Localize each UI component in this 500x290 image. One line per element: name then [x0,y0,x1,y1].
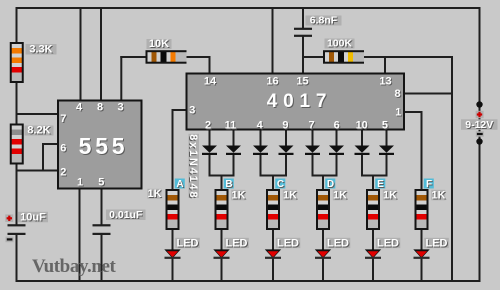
wire 0.01uF to ground rail [101,234,103,282]
wire 4017 pin 3 to column A [172,109,189,111]
svg-text:8x1N4148: 8x1N4148 [187,134,199,199]
label 10uF [18,212,48,223]
svg-text:4: 4 [76,102,83,114]
svg-text:6: 6 [334,119,340,131]
diode D1 1N4148 (4017 pin 2) [202,146,217,156]
label 10uF plus [5,214,13,222]
svg-text:1K: 1K [383,190,397,202]
wire column B resistor to LED [221,229,223,251]
label 3.3K [26,44,57,55]
label 1K column E [383,190,397,201]
wire 555 pin 3 to 10K [120,56,122,102]
junction dot supply + [476,101,482,107]
svg-text:4: 4 [257,119,264,131]
svg-text:1K: 1K [147,188,161,200]
svg-text:16: 16 [266,75,278,87]
svg-text:1K: 1K [333,190,347,202]
svg-text:LED: LED [327,237,349,249]
svg-text:10uF: 10uF [20,211,46,223]
resistor R8 1K column D [316,189,330,230]
IC U2 4017 body [187,74,405,130]
label 1K column D [333,190,347,201]
diode D6 1N4148 (4017 pin 6) [329,146,344,156]
capacitor C3 6.8nF plates [294,28,312,30]
svg-text:LED: LED [177,237,199,249]
wire 555 pin 8 to top rail [100,7,102,102]
svg-text:3.3K: 3.3K [29,44,52,56]
label 1K column A [148,189,162,199]
svg-text:15: 15 [296,75,308,87]
node label E [375,179,385,189]
diode D2 1N4148 (4017 pin 11) [226,146,241,156]
wire 100K to ground line [363,56,453,58]
wire 4017 pin 13 branch [384,56,386,75]
wire column E LED to ground rail [372,258,374,282]
svg-text:6: 6 [60,142,66,154]
wire column B LED to ground rail [221,258,223,282]
diode D7 1N4148 (4017 pin 10) [355,146,370,156]
label 8.2K [25,126,54,136]
wire column D LED to ground rail [322,258,324,282]
wire 4017 pin 5 to diode [386,129,388,146]
wire 555 pin 5 to 0.01uF [101,188,103,226]
node label C [275,179,285,189]
wire left rail (V+ to 10uF) [16,7,18,225]
label LED column C [276,238,301,248]
LED C [265,249,281,259]
diode D8 1N4148 (4017 pin 5) [379,146,394,156]
wire 4017 pin 7 to diode [312,129,314,146]
wire 4017 pin 6 to diode [336,129,338,146]
svg-text:11: 11 [225,119,237,131]
svg-text:LED: LED [226,237,248,249]
label 1K column B [231,190,245,201]
wire 4017 pin 16 to top rail [272,7,274,75]
wire diode 2 cathode down [233,155,235,177]
LED E [365,249,381,259]
svg-text:B: B [225,179,232,190]
label supply minus [476,131,484,136]
label 1K column F [431,190,445,201]
label 6.8nF [306,16,342,26]
wire left rail below 10uF to ground rail [16,234,18,282]
node label D [325,179,335,189]
svg-text:1: 1 [395,107,401,119]
LED B [213,249,229,259]
svg-text:9: 9 [282,119,288,131]
wire node pin15 to 100K [302,56,325,58]
wire 4017 pin 11 to diode [233,129,235,146]
resistor R7 1K column C [266,189,280,230]
LED D [315,249,331,259]
wire 4017 pin 8 to ground drop [403,93,453,95]
svg-text:F: F [426,179,432,190]
svg-text:13: 13 [379,75,391,87]
diode D5 1N4148 (4017 pin 7) [305,146,320,156]
svg-text:LED: LED [277,237,299,249]
svg-text:8: 8 [97,102,103,114]
wire column F LED to ground rail [421,258,423,282]
svg-text:D: D [327,179,334,190]
wire 4017 pin 2 to diode [209,129,211,146]
svg-text:1: 1 [77,177,83,189]
capacitor C2 0.01uF plates [93,224,111,226]
LED A [164,249,180,259]
label LED column B [224,238,249,248]
label 9-12V [461,119,498,130]
label 10uF minus [6,237,14,243]
svg-text:8: 8 [394,88,400,100]
svg-text:10K: 10K [149,38,169,50]
svg-text:6.8nF: 6.8nF [310,15,338,27]
wire column A resistor to LED [172,229,174,251]
svg-text:0.01uF: 0.01uF [109,209,143,221]
svg-text:7: 7 [60,113,66,125]
wire column A LED to ground rail [172,258,174,282]
diode D3 1N4148 (4017 pin 4) [253,146,268,156]
wire 6.8nF to 4017 pin 15 [302,36,304,75]
wire column F resistor to LED [421,229,423,251]
wire diode pair merge [209,175,235,177]
wire 4017 pin 10 to diode [361,129,363,146]
wire diode 1 cathode down [209,155,211,177]
wire diode 5 cathode down [312,155,314,177]
svg-text:1K: 1K [431,190,445,202]
svg-text:100K: 100K [327,38,353,50]
wire 555 pin 4 to top rail [80,7,82,102]
svg-text:10: 10 [356,119,368,131]
wire 555 pin 1 to ground rail [79,188,81,282]
label 8x1N4148 [189,134,200,198]
wire top rail to 6.8nF [302,7,304,29]
svg-text:E: E [377,179,384,190]
wire diode pair merge [260,175,288,177]
wire 10K to 4017 pin 14 [185,56,211,58]
wire diode 4 cathode down [285,155,287,177]
svg-text:LED: LED [426,237,448,249]
wire 4017 pin 4 to diode [260,129,262,146]
wire diode pair merge [312,175,338,177]
junction dot supply - [476,138,482,144]
wire bottom ground rail [16,280,481,282]
label 10K [147,39,172,49]
label supply plus [476,111,484,118]
wire supply right rail [479,7,481,282]
svg-text:4017: 4017 [267,91,332,112]
wire 555 pin 7 to left rail [16,113,60,115]
svg-text:LED: LED [377,237,399,249]
wire diode 3 cathode down [260,155,262,177]
svg-text:9-12V: 9-12V [465,119,493,131]
wire diode 8 cathode down [386,155,388,177]
svg-text:A: A [176,179,183,190]
svg-text:7: 7 [308,119,314,131]
wire diode 7 cathode down [361,155,363,177]
wire ground drop (right) [451,56,453,282]
IC U2 4017 pin labels [189,75,402,132]
svg-text:Vutbay.net: Vutbay.net [32,256,117,277]
LED F [413,249,429,259]
svg-text:14: 14 [204,75,217,87]
svg-text:2: 2 [205,119,211,131]
svg-text:2: 2 [60,167,66,179]
node label B [224,179,234,189]
wire diode 6 cathode down [336,155,338,177]
diode D4 1N4148 (4017 pin 9) [279,146,294,156]
resistor R5 1K column A [166,189,180,230]
op-amp-style IC body U1 555 timer [58,101,142,189]
node label F [424,179,434,189]
label LED column F [424,238,449,248]
label 1K column C [283,190,297,201]
wire top supply rail [16,7,481,9]
label LED column D [326,238,351,248]
node label A [175,179,185,189]
resistor R1 3.3K [10,42,24,83]
label LED column A [175,238,200,248]
wire column D resistor to LED [322,229,324,251]
wire diode pair merge [361,175,388,177]
svg-text:3: 3 [118,102,124,114]
capacitor C1 10uF plates [8,224,26,226]
resistor R3 10K [146,50,187,64]
IC U1 555 pin labels [60,102,124,190]
svg-text:8.2K: 8.2K [27,125,50,137]
wire 4017 pin 9 to diode [285,129,287,146]
svg-text:1K: 1K [231,190,245,202]
resistor R10 1K column F [415,189,429,230]
wire column E resistor to LED [372,229,374,251]
svg-text:3: 3 [189,105,195,117]
label 0.01uF [106,210,146,221]
label LED column E [376,238,401,248]
resistor R2 8.2K [10,124,24,165]
wire 555 pin 6 link [42,143,59,145]
wire column C resistor to LED [272,229,274,251]
svg-text:5: 5 [98,177,104,189]
label 100K [325,39,355,49]
resistor R4 100K [323,50,364,64]
svg-text:1K: 1K [283,190,297,202]
svg-text:C: C [277,179,284,190]
svg-text:5: 5 [382,119,388,131]
wire 4017 pin 1 to column F [403,111,423,113]
svg-text:555: 555 [79,133,129,159]
wire 555 pin 2 to left rail [16,170,60,172]
resistor R6 1K column B [215,189,229,230]
wire column C LED to ground rail [272,258,274,282]
resistor R9 1K column E [366,189,380,230]
